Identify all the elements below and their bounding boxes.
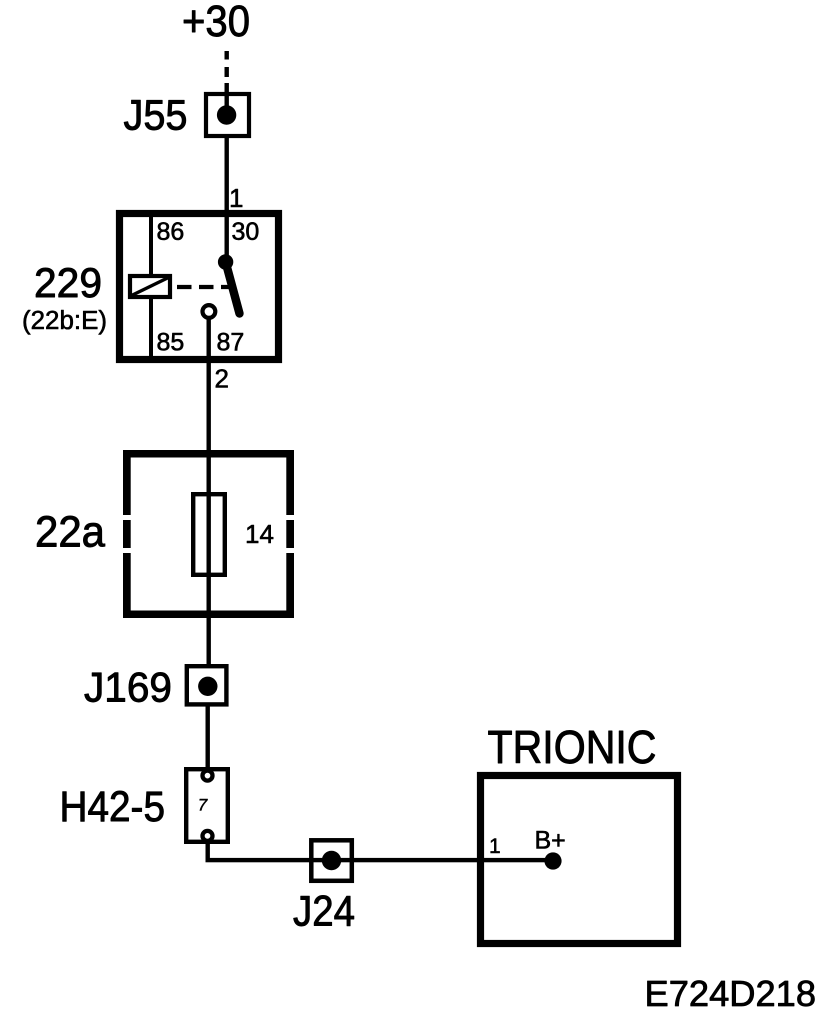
label TRIONIC <box>488 721 657 773</box>
connector J169 <box>187 666 227 704</box>
label J24 <box>293 888 355 936</box>
label 229 <box>34 259 102 306</box>
label J169 <box>84 664 172 711</box>
svg-text:2: 2 <box>215 364 229 394</box>
TRIONIC ECU box <box>481 776 678 944</box>
svg-text:E724D218: E724D218 <box>645 973 817 1014</box>
svg-text:85: 85 <box>157 329 185 357</box>
dashed actuation link coil to switch <box>177 285 231 289</box>
svg-text:J24: J24 <box>293 888 355 936</box>
pin number 2 (relay bottom) <box>215 364 229 394</box>
switch pivot junction (30) <box>218 254 233 269</box>
connector J55 <box>206 94 249 136</box>
svg-text:B+: B+ <box>535 827 566 855</box>
label B+ <box>535 827 566 855</box>
relay 229 box <box>120 214 279 360</box>
svg-text:22a: 22a <box>35 509 106 557</box>
wire J55 to relay pin 30 <box>225 136 229 212</box>
pin label 85 <box>157 329 185 357</box>
svg-text:7: 7 <box>198 796 208 815</box>
wire relay 87 down to fuse 22a <box>207 318 211 454</box>
label 22a <box>35 509 106 557</box>
wire H42-5 down and right to TRIONIC B+ <box>206 841 554 862</box>
pin label 87 <box>217 329 245 357</box>
pin number 1 (TRIONIC) <box>489 835 501 858</box>
svg-text:86: 86 <box>157 218 185 246</box>
label H42-5 <box>60 784 166 831</box>
pin number 7 inside H42-5 <box>198 796 208 815</box>
pin label 14 <box>245 519 274 549</box>
svg-text:TRIONIC: TRIONIC <box>488 721 657 773</box>
switch arm <box>226 262 240 314</box>
connector H42-5 box <box>186 769 228 842</box>
fuse holder 22a box (dashed sides) <box>123 450 294 618</box>
pin label 30 <box>232 218 260 246</box>
wire J169 to H42-5 <box>206 704 210 770</box>
node B+ terminal dot <box>544 852 561 869</box>
node +30 supply label <box>182 0 250 46</box>
pin number 1 (relay top) <box>229 183 243 213</box>
svg-text:229: 229 <box>34 259 102 306</box>
svg-text:J55: J55 <box>124 92 188 140</box>
terminal 87 open contact <box>203 305 216 318</box>
H42-5 top socket circle <box>203 771 213 781</box>
svg-text:1: 1 <box>229 183 243 213</box>
svg-text:H42-5: H42-5 <box>60 784 166 831</box>
svg-text:(22b:E): (22b:E) <box>22 307 107 335</box>
connector J24 <box>311 840 352 881</box>
H42-5 bottom socket circle <box>203 831 213 841</box>
relay coil <box>130 276 170 297</box>
wire coil branch 86-85 (inner vertical line) <box>149 215 153 359</box>
svg-text:87: 87 <box>217 329 245 357</box>
svg-text:J169: J169 <box>84 664 172 711</box>
wire through fuse <box>207 454 211 666</box>
svg-text:30: 30 <box>232 218 260 246</box>
wire relay pin 30 inside box <box>225 215 229 262</box>
pin label 86 <box>157 218 185 246</box>
fuse element symbol <box>193 494 225 575</box>
label E724D218 drawing number <box>645 973 817 1014</box>
svg-text:1: 1 <box>489 835 501 858</box>
svg-text:+30: +30 <box>182 0 250 46</box>
wire dashed from +30 down to J55 <box>225 51 229 95</box>
label (22b:E) <box>22 307 107 335</box>
label J55 <box>124 92 188 140</box>
svg-text:14: 14 <box>245 519 274 549</box>
